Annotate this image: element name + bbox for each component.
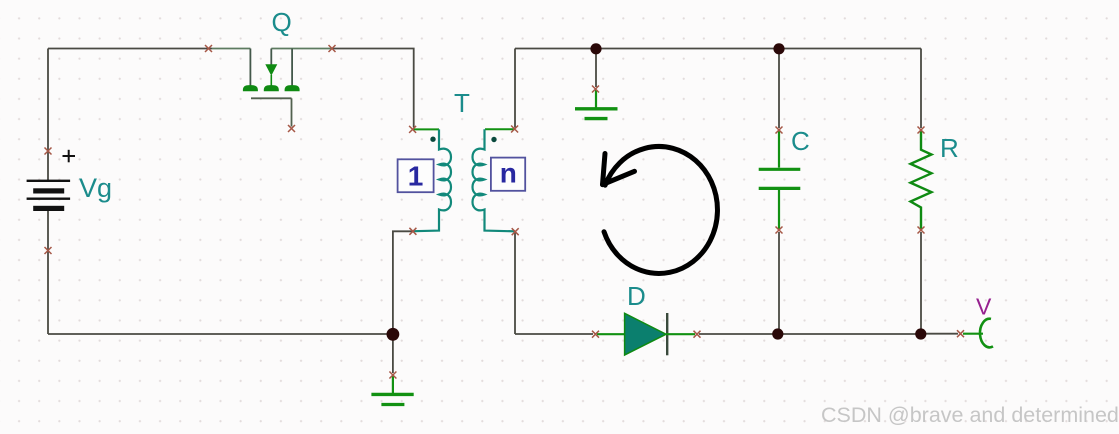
wire bottom-left rail bbox=[48, 333, 393, 335]
wire ground2 stub bbox=[392, 334, 394, 373]
diode D body bbox=[625, 313, 666, 355]
transistor Q middle vertical bbox=[270, 49, 272, 65]
transistor Q right vertical bbox=[291, 49, 293, 87]
transistor Q arrow bbox=[265, 64, 277, 76]
diode D cathode bar bbox=[666, 313, 668, 355]
terminal mark: D cathode bbox=[694, 331, 701, 338]
svg-text:1: 1 bbox=[408, 160, 424, 191]
svg-text:R: R bbox=[940, 133, 959, 163]
transistor Q1 gate bar bbox=[251, 98, 292, 126]
terminal mark: R bottom bbox=[918, 227, 925, 234]
svg-text:V: V bbox=[976, 294, 992, 320]
transformer T secondary winding bbox=[473, 129, 515, 231]
wire top-right rail bbox=[515, 48, 921, 50]
transistor Q drain vertical bbox=[249, 49, 251, 87]
svg-text:T: T bbox=[454, 88, 470, 118]
terminal mark: output port V bbox=[957, 330, 964, 337]
wire battery top vertical bbox=[47, 49, 49, 182]
ground top (secondary) bbox=[575, 90, 618, 119]
node capacitor top bbox=[773, 43, 784, 54]
transistor Q left pad bbox=[243, 85, 258, 91]
wire battery bottom vertical bbox=[47, 211, 49, 334]
transformer turns box n bbox=[491, 158, 525, 191]
transformer turns box 1 bbox=[398, 159, 434, 192]
terminal mark: bottom ground bbox=[389, 372, 396, 379]
terminal mark: C bottom bbox=[776, 227, 783, 234]
node ground1 tap bbox=[590, 43, 601, 54]
wire capacitor top bbox=[778, 49, 780, 129]
battery Vg plate 4 thick bbox=[33, 206, 64, 211]
wire bottom rail to diode bbox=[515, 333, 593, 335]
diode D cathode lead bbox=[666, 333, 695, 335]
transistor Q right pad bbox=[285, 85, 300, 91]
output port V lead bbox=[963, 333, 983, 335]
terminal mark: top-left rail bbox=[205, 45, 212, 52]
wire Q source to transformer bbox=[333, 49, 414, 128]
wire secondary bottom drop bbox=[514, 232, 516, 334]
battery Vg plate 1 bbox=[27, 180, 71, 182]
diode D anode lead bbox=[597, 333, 625, 335]
terminal mark: secondary winding bottom bbox=[512, 228, 519, 235]
terminal mark: Vg negative bbox=[45, 247, 52, 254]
terminal mark: primary winding top bbox=[409, 126, 416, 133]
terminal mark: Vg positive bbox=[45, 148, 52, 155]
output port V symbol bbox=[980, 319, 993, 348]
transistor Q drain lead bbox=[212, 48, 250, 50]
wire capacitor node to resistor node bbox=[779, 333, 921, 335]
transistor Q middle pad bbox=[264, 85, 279, 91]
terminal mark: primary winding bottom bbox=[409, 228, 416, 235]
ground bottom (primary) bbox=[371, 376, 413, 405]
capacitor C bbox=[759, 131, 801, 229]
node primary ground junction bbox=[387, 328, 400, 341]
wire resistor top drop bbox=[920, 49, 922, 129]
transformer T primary winding bbox=[414, 129, 451, 231]
transformer T secondary top stub bbox=[485, 128, 515, 130]
battery Vg plate 3 bbox=[27, 198, 71, 200]
watermark bbox=[821, 403, 1119, 428]
node capacitor bottom bbox=[772, 328, 783, 339]
svg-text:D: D bbox=[627, 281, 646, 311]
rotation arrow (hand drawn) bbox=[603, 146, 718, 273]
svg-text:Vg: Vg bbox=[79, 173, 112, 203]
wire resistor bottom bbox=[920, 232, 922, 334]
transformer primary polarity dot bbox=[430, 137, 435, 142]
terminal mark: secondary winding top bbox=[511, 126, 518, 133]
wire ground1 stub bbox=[595, 49, 597, 88]
transistor Q source lead bbox=[271, 48, 332, 50]
terminal mark: Q source rail bbox=[329, 45, 336, 52]
wire diode to capacitor node bbox=[699, 333, 779, 335]
transformer T primary top stub bbox=[413, 128, 439, 130]
transformer secondary polarity dot bbox=[491, 137, 496, 142]
wire top-left rail bbox=[48, 48, 212, 50]
wire resistor node to output bbox=[921, 333, 958, 335]
wire capacitor bottom bbox=[778, 232, 780, 334]
node resistor bottom bbox=[915, 328, 926, 339]
terminal mark: Q gate bbox=[288, 125, 295, 132]
svg-text:n: n bbox=[500, 158, 517, 189]
wire transformer primary bottom bbox=[393, 231, 414, 334]
svg-text:Q: Q bbox=[272, 7, 292, 37]
terminal mark: R top bbox=[918, 127, 925, 134]
svg-text:C: C bbox=[791, 126, 810, 156]
battery plus sign bbox=[63, 150, 76, 163]
resistor R bbox=[911, 131, 932, 229]
battery Vg plate 2 thick bbox=[33, 188, 64, 193]
wire secondary top drop bbox=[514, 49, 516, 128]
terminal mark: D anode bbox=[592, 331, 599, 338]
terminal mark: top ground bbox=[592, 86, 599, 93]
terminal mark: C top bbox=[776, 127, 783, 134]
